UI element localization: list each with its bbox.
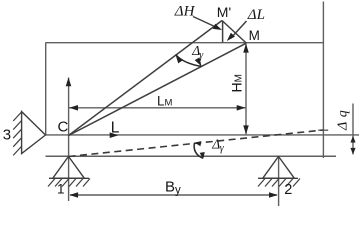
svg-text:M: M (249, 28, 260, 43)
svg-text:L: L (111, 120, 120, 137)
svg-text:M': M' (217, 4, 231, 20)
svg-text:1: 1 (57, 182, 65, 197)
svg-text:ΔH: ΔH (174, 3, 196, 19)
svg-text:2: 2 (284, 182, 292, 198)
svg-text:C: C (58, 119, 69, 136)
svg-text:3: 3 (3, 127, 11, 144)
svg-text:ΔL: ΔL (247, 7, 265, 23)
